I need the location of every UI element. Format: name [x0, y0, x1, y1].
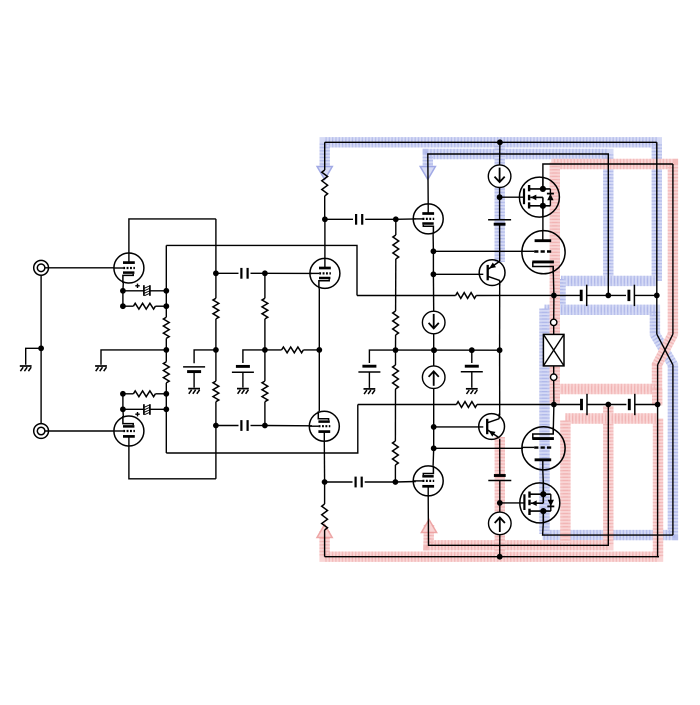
wire highlight red jog upper loop	[552, 164, 673, 389]
battery B2	[488, 476, 511, 481]
terminal T1 dot bottom	[551, 374, 557, 380]
wire R1 lead	[155, 305, 166, 307]
wire Q4 drain	[542, 470, 545, 483]
wire V3 plate up	[324, 219, 326, 258]
node n-o6	[655, 402, 661, 408]
wire chain d	[395, 350, 397, 365]
mosfet Q3	[519, 177, 559, 217]
wire bus mid top b	[476, 294, 580, 296]
node n-r1b	[163, 303, 169, 309]
wire bottom rail	[325, 556, 659, 558]
wire input bottom	[45, 430, 114, 432]
wire cs chain a	[432, 251, 434, 274]
flow arrow red arrow 1	[317, 525, 332, 538]
wire row2 grid	[265, 425, 312, 427]
resistor R15	[393, 441, 399, 465]
wire V7 cathode out	[552, 267, 555, 296]
wire highlight red crossover tail	[652, 389, 662, 406]
wire top rail	[325, 141, 657, 143]
wire cg4	[471, 350, 473, 363]
capacitor C12	[629, 285, 635, 306]
node n-b2	[262, 347, 268, 353]
node n-bt	[497, 194, 503, 200]
node n-cs	[431, 347, 437, 353]
node n-o4	[551, 402, 557, 408]
wire row3 grid	[396, 218, 416, 220]
wire collector top	[499, 280, 501, 350]
wire input top	[45, 267, 114, 269]
flow arrow blue arrow 1	[317, 167, 332, 180]
flow arrow blue arrow 2	[420, 167, 435, 180]
wire link top	[166, 245, 357, 295]
capacitor C2 (electrolytic)	[135, 404, 150, 416]
current source I3	[488, 165, 511, 188]
node n-p3	[322, 216, 328, 222]
power triode V8	[522, 427, 565, 470]
wire row3 a	[325, 218, 353, 220]
wire V6 cathode up	[432, 448, 435, 466]
wire k2 cap lead L	[123, 408, 144, 410]
node n-ch	[393, 347, 399, 353]
wire top corner	[324, 142, 326, 170]
resistor R6	[213, 381, 219, 402]
wire highlight blue jog lower loop	[543, 310, 673, 535]
terminal T1 dot top	[551, 319, 557, 325]
capacitor C1 (electrolytic)	[135, 284, 150, 296]
triode V2	[114, 416, 144, 446]
capacitor C13	[582, 394, 588, 415]
wire bus B b	[264, 319, 266, 381]
wire row1 R	[251, 272, 265, 274]
wire gnd tee 2	[101, 350, 166, 365]
wire V4 plate down	[323, 441, 325, 482]
wire xf top	[553, 295, 555, 319]
wire row2 R	[251, 425, 265, 427]
wire row2 L	[216, 425, 239, 427]
wire base feed bottom	[434, 426, 484, 428]
node n-r1	[163, 288, 169, 294]
resistor R13	[393, 311, 399, 335]
node n-kk	[316, 347, 322, 353]
wire V1 plate to bus	[129, 219, 216, 253]
wire highlight red plate feed bottom	[429, 406, 609, 545]
resistor R16	[456, 293, 477, 299]
node n-r2b	[163, 391, 169, 397]
wire bias top c	[499, 224, 501, 261]
node n-tr	[497, 139, 503, 145]
wire k1 down	[123, 291, 133, 306]
transistor Q1 (PNP)	[479, 260, 505, 286]
node n-bb1	[431, 347, 437, 353]
wire row4 a	[325, 481, 353, 483]
resistor R4	[163, 362, 169, 383]
wire input gnd tee	[26, 348, 41, 365]
connector J1	[34, 260, 49, 275]
resistor R12	[393, 235, 399, 259]
node n-c6	[431, 445, 437, 451]
wire chain a	[395, 219, 397, 235]
node n-o3	[654, 293, 660, 299]
wire collector bottom	[499, 350, 501, 415]
wire rail L b	[165, 338, 167, 361]
wire highlight blue supply top	[325, 142, 657, 281]
wire cs chain b	[432, 274, 434, 311]
node n-k1b	[120, 303, 126, 309]
ground GND4	[237, 389, 249, 394]
resistor R17	[456, 402, 477, 408]
wire chain e	[394, 389, 396, 441]
capacitor C3	[241, 268, 247, 279]
wire grid feed top	[433, 250, 523, 252]
wire V1 cathode	[122, 283, 124, 291]
resistor R3	[163, 317, 169, 338]
node n-bb3	[497, 347, 503, 353]
capacitor C5	[183, 367, 205, 372]
wire row3 b	[365, 218, 396, 220]
wire row1 L	[216, 272, 239, 274]
wire gate feed bottom	[500, 502, 525, 504]
wire cs chain d	[433, 389, 435, 427]
transistor Q2 (PNP)	[479, 414, 505, 440]
wire V2 cathode	[122, 409, 124, 416]
node n-g5	[393, 216, 399, 222]
triode V4	[309, 411, 339, 441]
wire cg3 down	[368, 372, 370, 388]
wire highlight red bias branch	[495, 437, 505, 555]
wire xf mid a	[553, 326, 555, 335]
wire cg2	[243, 350, 265, 363]
node n-mid	[163, 347, 169, 353]
wire V3 anode res	[324, 196, 326, 219]
node n-a1	[213, 270, 219, 276]
node n-c5b	[431, 271, 437, 277]
wire bias bot b	[499, 481, 501, 512]
wire highlight blue jog stub	[555, 279, 565, 311]
wire highlight blue bias branch	[495, 142, 505, 262]
node n-k2	[120, 406, 126, 412]
node n-a3	[213, 423, 219, 429]
wire chain c	[395, 335, 397, 350]
wire input link	[40, 276, 42, 424]
node n-o5	[605, 402, 611, 408]
resistor R5	[213, 298, 219, 319]
wire chain b	[395, 259, 397, 311]
wire k1 cap lead R	[150, 290, 166, 292]
node n-a2	[213, 347, 219, 353]
wire bus mid top c	[587, 294, 626, 296]
wire right vert B	[672, 164, 674, 334]
capacitor C14	[629, 394, 635, 415]
connector J2	[34, 424, 49, 439]
wire cg1 down	[193, 372, 195, 388]
ground GND6	[466, 389, 478, 394]
wire base feed top	[433, 273, 483, 275]
resistor R7	[262, 298, 268, 319]
node n-bb2	[469, 347, 475, 353]
wire row4 b	[365, 481, 396, 483]
resistor R8	[262, 381, 268, 402]
ground GND2	[95, 366, 107, 371]
wire rail L a	[165, 245, 167, 317]
wire bias bot c	[499, 439, 501, 476]
capacitor C10	[356, 477, 362, 488]
wire bias bus	[396, 349, 500, 351]
node n-br	[497, 554, 503, 560]
wire highlight red supply bottom	[325, 419, 658, 557]
node n-c6b	[431, 424, 437, 430]
wire rail L c	[165, 383, 167, 453]
wire bus mid bottom d	[635, 404, 658, 406]
current source I4	[489, 512, 512, 535]
wire cross A	[657, 334, 673, 365]
wire cs chain e	[433, 427, 435, 448]
triode V6	[413, 466, 443, 496]
wire bus A a	[215, 219, 217, 298]
wire highlight red jog lower	[565, 413, 658, 423]
wire right vert C	[672, 365, 674, 535]
wire xf mid b	[553, 366, 555, 374]
resistor R11	[322, 504, 328, 530]
wire Q3 source	[542, 217, 544, 231]
wire V5 cathode down	[432, 234, 434, 251]
wire grid feed bottom	[434, 447, 523, 449]
wire k2 up	[123, 394, 133, 410]
wire xf bottom	[553, 380, 555, 404]
node n-in	[38, 345, 44, 351]
wire V6 plate down	[428, 405, 608, 546]
node n-p4	[322, 479, 328, 485]
wire bus mid top	[357, 295, 456, 297]
capacitor C9	[356, 214, 362, 225]
wire right vert D	[658, 365, 659, 557]
wire cross B	[658, 334, 673, 365]
wire bias top b	[499, 188, 501, 220]
resistor R14	[393, 365, 399, 389]
resistor R10	[322, 170, 328, 196]
wire Q3 drain	[543, 164, 673, 177]
wire highlight red jog stub	[560, 421, 570, 544]
current source I1	[422, 311, 445, 334]
triode V1	[114, 253, 144, 283]
wire row1 grid	[265, 272, 312, 274]
node n-r2	[163, 406, 169, 412]
wire V8 cathode out	[552, 405, 555, 435]
capacitor C7	[358, 366, 380, 372]
wire bus B a	[264, 273, 266, 298]
wire highlight blue jog upper	[561, 276, 657, 286]
wire bus mid bottom b	[477, 404, 580, 406]
power triode V7	[522, 231, 565, 274]
wire bus A c	[215, 402, 217, 479]
wire bias top a	[499, 142, 501, 164]
wire row4 grid	[395, 481, 415, 484]
transformer T1	[543, 334, 564, 366]
node n-k2b	[120, 391, 126, 397]
capacitor C11	[581, 285, 587, 306]
resistor R2	[133, 391, 155, 397]
wire R9 lead2	[265, 349, 282, 351]
resistor R9	[282, 347, 304, 353]
capacitor C4	[241, 420, 247, 431]
wire cg4 down	[471, 372, 473, 388]
ground GND1	[20, 366, 32, 371]
node n-o2	[605, 293, 611, 299]
wire link bottom	[166, 405, 357, 454]
wire V2 plate to bus	[129, 446, 216, 479]
current source I2	[422, 366, 445, 389]
flow arrow red arrow 2	[421, 520, 436, 533]
wire bottom corner	[324, 530, 326, 557]
wire bus A b	[215, 319, 217, 381]
resistor R1	[133, 303, 155, 309]
wire R2 lead	[155, 393, 166, 395]
wire R9 lead	[303, 349, 319, 351]
ground GND5	[364, 389, 376, 394]
wire cg2 down	[242, 372, 244, 387]
wire highlight blue output column	[539, 309, 549, 535]
wire cathode link	[318, 288, 320, 411]
capacitor C6	[232, 366, 254, 372]
wire Q4 source	[543, 523, 673, 535]
node n-k1	[120, 288, 126, 294]
wire k1 cap lead L	[123, 290, 144, 292]
wire highlight red output column	[550, 163, 560, 404]
wire highlight blue plate feed	[428, 154, 609, 281]
capacitor C8	[461, 366, 483, 372]
node n-bb	[497, 500, 503, 506]
wire bus B c	[264, 402, 266, 426]
triode V3	[310, 258, 340, 288]
ground GND3	[188, 389, 200, 394]
battery B1	[488, 220, 511, 224]
wire right vert A	[656, 142, 658, 334]
wire chain f	[394, 465, 396, 482]
wire bus mid bottom c	[587, 404, 626, 406]
node n-c5	[431, 248, 437, 254]
node n-g6	[393, 479, 399, 485]
wire cg1	[194, 350, 216, 363]
wire cs chain c	[433, 334, 435, 366]
wire gate feed top	[500, 196, 524, 198]
wire V4 anode res	[324, 482, 326, 504]
triode V5	[413, 204, 443, 234]
wire bias bot a	[499, 535, 501, 557]
wire k2 cap lead R	[150, 408, 166, 410]
node n-b3	[262, 423, 268, 429]
wire bus mid bottom	[358, 404, 457, 406]
wire V5 plate up	[428, 154, 609, 295]
mosfet Q4	[520, 483, 560, 523]
wire bus mid top d	[634, 294, 656, 296]
node n-b1	[262, 270, 268, 276]
wire cg3	[369, 350, 395, 363]
node n-o1	[551, 293, 557, 299]
